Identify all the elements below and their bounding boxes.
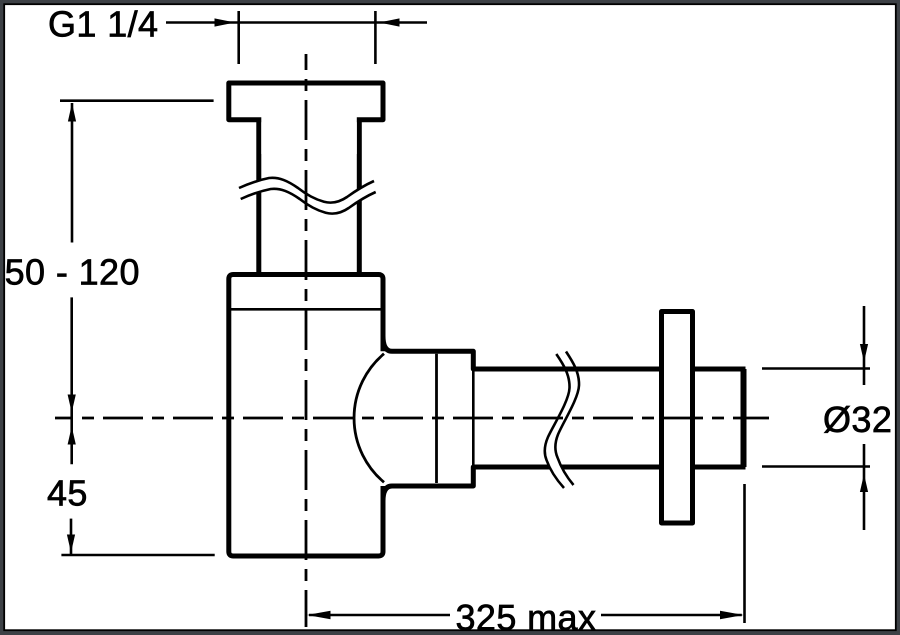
break wave left curve [545,354,570,488]
ball joint arc [354,354,384,483]
arrow right at tube end ext [720,611,744,620]
vertical inlet pipe right edge [357,120,362,276]
arrow down at centerline [68,395,76,413]
diameter 32 top extension line [762,367,870,370]
diameter 32 bottom extension line [762,465,870,468]
horizontal centerline [55,417,769,420]
diameter 32 dimension line lower [863,444,866,530]
G1 1/4 extension line left [237,11,240,64]
50-120 dimension line lower [70,297,73,464]
break wave upper curve [239,178,374,203]
45 dimension line lower [70,519,73,555]
break wave lower curve [241,189,376,214]
ball tangent line [435,354,438,483]
bell-to-tube junction edge line [472,369,475,467]
arrow left at centerline [307,611,331,620]
diameter 32 dimension line upper [863,306,866,385]
325 max dimension line left segment [309,614,450,617]
svg-text:G1 1/4: G1 1/4 [48,4,158,45]
325 max right extension line [743,484,746,623]
outlet bell top edge with fillet + step + tube top edge [383,336,746,369]
arrow down at top ext [860,344,868,362]
pipe white fill over flange bottom edge [261,114,357,154]
325 max dimension line right segment [601,614,742,617]
arrow right-pointing at left ext [215,18,236,26]
svg-text:45: 45 [47,473,88,514]
outlet tube end cap [741,369,747,467]
break wave mask on outlet tube [545,352,579,489]
svg-text:Ø32: Ø32 [823,399,892,440]
trap body cup [229,275,383,557]
arrow left-pointing at right ext [379,18,400,26]
G1 1/4 extension line right [374,11,377,64]
outlet bell bottom edge with fillet + step + tube bottom edge [383,467,746,501]
50-120 top extension line [60,99,214,102]
slip nut line inside body [230,308,383,311]
vertical centerline [305,54,308,627]
G1 1/4 dimension line [166,21,427,24]
svg-text:325 max: 325 max [456,597,597,635]
arrow up at bottom ext [860,474,868,492]
vertical inlet pipe left edge [256,120,261,276]
vertical inlet pipe white fill [261,114,357,273]
svg-text:50 - 120: 50 - 120 [5,252,140,293]
break wave mask on vertical pipe [239,178,376,214]
45 bottom extension line [61,554,214,557]
tube top edge continuing across break [542,367,593,372]
wall flange on outlet tube [662,312,693,524]
50-120 dimension line upper [71,103,74,243]
top flange nut G1 1/4 [229,83,383,120]
arrow up at centerline [68,427,76,445]
arrow down at bottom ext [67,535,75,553]
arrow up at top ext [68,103,76,122]
break wave right curve [555,352,579,486]
